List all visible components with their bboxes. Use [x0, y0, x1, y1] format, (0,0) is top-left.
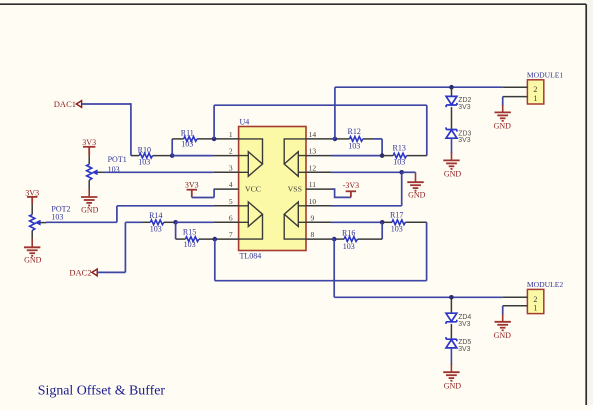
- svg-text:DAC2: DAC2: [69, 267, 91, 277]
- wire stub ZD3 down: [451, 138, 453, 153]
- wire pin8 tip to node: [331, 238, 334, 240]
- wire POT1 top stub: [88, 156, 90, 165]
- wire stub ZD4 to ZD5: [450, 324, 452, 339]
- pin 3 of U4: [214, 171, 239, 173]
- pin 8 of U4: [306, 238, 331, 240]
- op-amp U4 unit A triangle: [239, 139, 263, 176]
- svg-text:103: 103: [138, 157, 150, 166]
- wire pin11 jog: [331, 189, 351, 197]
- wire output net to MODULE2: [334, 296, 503, 298]
- svg-text:103: 103: [391, 225, 403, 234]
- wire pin12 run: [331, 171, 402, 173]
- wire pin9 run: [331, 221, 382, 223]
- svg-text:103: 103: [51, 213, 63, 222]
- svg-text:GND: GND: [408, 190, 426, 199]
- pin 10 of U4: [306, 205, 331, 207]
- wire DAC2 to corner: [97, 271, 125, 273]
- wire node down to R15: [175, 222, 177, 239]
- wire POT2 up to pin5 row: [116, 206, 118, 223]
- potentiometer POT2: [30, 215, 35, 231]
- svg-text:1: 1: [533, 303, 537, 312]
- svg-text:3V3: 3V3: [185, 181, 199, 190]
- wire stub node2 to ZD4: [450, 297, 452, 313]
- op-amp U4 unit B triangle: [239, 202, 263, 239]
- svg-text:103: 103: [348, 141, 360, 150]
- power P3 3V3: [187, 190, 197, 198]
- sheet right margin strip: [587, 0, 593, 405]
- resistor R14: [143, 220, 176, 225]
- svg-text:DAC1: DAC1: [54, 99, 76, 109]
- svg-text:U4: U4: [240, 117, 250, 126]
- resistor R10: [131, 153, 172, 158]
- potentiometer POT1: [87, 164, 92, 180]
- wire pin8 node down: [333, 239, 335, 297]
- svg-text:103: 103: [343, 242, 355, 251]
- wire unitB out across bottom: [215, 280, 427, 282]
- svg-text:103: 103: [393, 158, 405, 167]
- svg-text:5: 5: [229, 197, 233, 206]
- wire up to R17 right: [426, 222, 428, 280]
- power P1 3V3: [83, 147, 95, 156]
- resistor R11: [172, 137, 214, 142]
- wire pin10 run: [331, 205, 402, 207]
- wiper arrow of POT2: [35, 220, 40, 225]
- wire pin14 tip to node: [331, 138, 335, 140]
- wire MODULE2 pin1 to gnd: [502, 306, 504, 315]
- zener diode ZD5 (cathode up): [446, 337, 457, 348]
- svg-text:103: 103: [181, 139, 193, 148]
- ground G2 (POT2): [24, 247, 40, 256]
- resistor R17: [382, 220, 426, 225]
- svg-text:8: 8: [311, 230, 315, 239]
- wire pin7 node down: [214, 239, 216, 281]
- pin 2 of MODULE2: [503, 296, 528, 298]
- svg-text:MODULE1: MODULE1: [527, 70, 563, 79]
- svg-text:GND: GND: [444, 381, 462, 390]
- svg-text:R15: R15: [183, 227, 196, 236]
- wire DAC1 corner down to R10: [130, 103, 132, 155]
- resistor R12: [335, 137, 374, 142]
- wiper arrow of POT1: [92, 170, 97, 175]
- svg-text:R11: R11: [181, 128, 194, 137]
- wire pin12 to gnd stub: [402, 171, 416, 173]
- ground G5 (pin12): [407, 182, 423, 191]
- wire node to pin2: [172, 155, 213, 157]
- svg-text:R16: R16: [342, 228, 355, 237]
- window frame top border: [0, 3, 586, 5]
- zener diode ZD4 (cathode down): [446, 313, 457, 324]
- svg-text:3V3: 3V3: [458, 346, 470, 353]
- ground G3 (ZD3): [443, 160, 459, 169]
- junction R14/R15 node: [173, 220, 178, 225]
- power P4 -3V3: [346, 191, 356, 197]
- zener diode ZD3 (cathode up): [446, 127, 457, 138]
- wire pin5 run: [117, 205, 214, 207]
- svg-text:R12: R12: [348, 127, 361, 136]
- zener diode ZD2 (cathode down): [446, 96, 457, 107]
- wire 3V3 to jog: [192, 197, 214, 199]
- svg-text:2: 2: [533, 85, 537, 94]
- wire POT2 bottom stub: [31, 231, 33, 240]
- wire DAC2 to R14: [125, 221, 142, 223]
- junction pin13 node: [380, 153, 385, 158]
- wire node to pin6: [176, 221, 214, 223]
- junction zener tap node 2: [449, 295, 454, 300]
- junction pin12 node: [399, 170, 404, 175]
- op-amp U4 unit D triangle: [284, 139, 306, 176]
- wire DAC2 corner up: [124, 222, 126, 272]
- power P2 3V3: [27, 197, 37, 204]
- svg-text:GND: GND: [494, 331, 512, 340]
- connector MODULE2: [527, 289, 543, 313]
- svg-text:12: 12: [309, 163, 317, 172]
- svg-text:14: 14: [309, 130, 317, 139]
- svg-text:MODULE2: MODULE2: [527, 280, 563, 289]
- junction pin9 node: [380, 220, 385, 225]
- svg-text:3V3: 3V3: [25, 188, 39, 197]
- pin 14 of U4: [306, 138, 331, 140]
- svg-text:GND: GND: [81, 205, 99, 214]
- svg-text:R13: R13: [393, 144, 406, 153]
- ground stem G5: [415, 172, 417, 182]
- svg-text:VCC: VCC: [245, 184, 261, 193]
- svg-text:9: 9: [311, 213, 315, 222]
- svg-text:3V3: 3V3: [458, 137, 470, 144]
- junction R10/R11 node: [170, 153, 175, 158]
- junction pin8 node: [332, 237, 337, 242]
- pin 4 of U4: [214, 188, 239, 190]
- wire output net to MODULE1: [335, 86, 503, 88]
- svg-text:3: 3: [229, 163, 233, 172]
- svg-text:103: 103: [184, 240, 196, 249]
- port DAC1: [76, 101, 81, 108]
- wire pin13 run: [331, 155, 382, 157]
- svg-text:11: 11: [309, 180, 316, 189]
- ground stem G3: [451, 153, 453, 161]
- wire pin12 node down: [401, 172, 403, 206]
- svg-text:3V3: 3V3: [458, 321, 470, 328]
- svg-text:4: 4: [229, 180, 233, 189]
- junction pin1 node: [212, 137, 217, 142]
- svg-text:R10: R10: [138, 146, 151, 155]
- wire DAC1 to corner: [82, 103, 131, 105]
- pin 9 of U4: [306, 221, 331, 223]
- wire POT1 wiper to pin3: [103, 171, 214, 173]
- op-amp U4 TL084 body: [239, 127, 306, 251]
- svg-text:ZD4: ZD4: [458, 314, 471, 321]
- svg-text:103: 103: [150, 224, 162, 233]
- connector MODULE1: [527, 80, 543, 104]
- window frame right border: [585, 4, 587, 405]
- svg-text:1: 1: [533, 94, 537, 103]
- svg-text:R17: R17: [390, 211, 403, 220]
- wire R16 up to pin9 node: [381, 222, 383, 239]
- pin 1 of MODULE1: [503, 96, 528, 98]
- wire jog up to pin4: [213, 189, 215, 197]
- wire pin1 net across top: [214, 104, 427, 106]
- pin 12 of U4: [306, 171, 331, 173]
- pin 11 of U4: [306, 188, 331, 190]
- svg-text:3V3: 3V3: [82, 138, 96, 147]
- pin 1 of U4: [214, 138, 239, 140]
- ground stem G6: [450, 364, 452, 373]
- wire POT2 wiper run: [46, 221, 117, 223]
- op-amp U4 unit C triangle: [284, 202, 306, 239]
- pin 5 of U4: [214, 205, 239, 207]
- pin 1 of MODULE2: [503, 305, 528, 307]
- wire stub ZD5 down: [450, 348, 452, 365]
- wire node up to R11: [171, 139, 173, 156]
- wire stub ZD2 to ZD3: [451, 107, 453, 129]
- svg-text:-3V3: -3V3: [343, 181, 359, 190]
- ground G1 (POT1): [81, 197, 97, 206]
- svg-text:13: 13: [309, 147, 317, 156]
- svg-text:POT1: POT1: [108, 155, 127, 164]
- svg-text:GND: GND: [494, 122, 512, 131]
- svg-text:GND: GND: [444, 170, 462, 179]
- svg-text:1: 1: [229, 130, 233, 139]
- wire MODULE1 pin1 to gnd: [502, 97, 504, 106]
- svg-text:3V3: 3V3: [458, 104, 470, 111]
- wire R12 down to pin13: [381, 139, 383, 156]
- wire pin1 node up: [213, 105, 215, 139]
- svg-text:ZD5: ZD5: [458, 339, 471, 346]
- junction pin7 node: [213, 237, 218, 242]
- svg-text:10: 10: [309, 197, 317, 206]
- pin 2 of U4: [214, 155, 239, 157]
- junction zener tap node 1: [449, 85, 454, 90]
- wire stub node1 to ZD2: [451, 87, 453, 96]
- svg-text:6: 6: [229, 213, 233, 222]
- svg-text:R14: R14: [149, 211, 162, 220]
- ground G7 (MODULE2): [495, 322, 511, 331]
- svg-text:TL084: TL084: [240, 252, 262, 261]
- wire POT1 bottom stub: [88, 180, 90, 189]
- junction pin14 node: [333, 137, 338, 142]
- pin 2 of MODULE1: [503, 86, 528, 88]
- wire POT2 top stub: [31, 204, 33, 215]
- svg-text:7: 7: [229, 230, 233, 239]
- wire pin14 node up: [334, 87, 336, 139]
- pin 6 of U4: [214, 221, 239, 223]
- ground G6 (ZD5): [443, 372, 459, 381]
- wire pin1 net down to R13: [426, 105, 428, 155]
- svg-text:GND: GND: [24, 256, 42, 265]
- port DAC2: [92, 269, 97, 276]
- svg-text:Signal Offset & Buffer: Signal Offset & Buffer: [38, 383, 166, 398]
- resistor R16: [334, 237, 382, 242]
- wire R12 right to corner: [374, 138, 382, 140]
- resistor R13: [382, 153, 427, 158]
- pin 7 of U4: [214, 238, 239, 240]
- pin 13 of U4: [306, 155, 331, 157]
- svg-text:2: 2: [229, 147, 233, 156]
- ground G4 (MODULE1): [495, 112, 511, 121]
- resistor R15: [176, 237, 215, 242]
- svg-text:VSS: VSS: [288, 184, 302, 193]
